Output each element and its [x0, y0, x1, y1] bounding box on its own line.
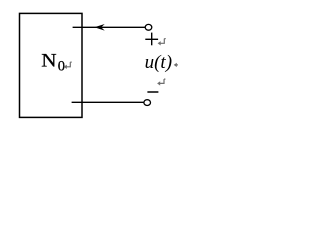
svg-text:0: 0 — [58, 59, 65, 75]
svg-text:N: N — [41, 50, 57, 71]
svg-text:u(t): u(t) — [145, 52, 172, 73]
